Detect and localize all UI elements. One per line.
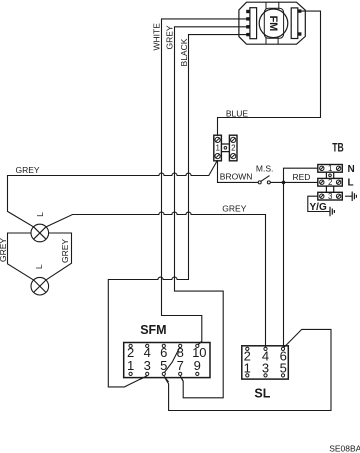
svg-text:RED: RED <box>293 172 311 182</box>
wire BLACK: FM terminal 4 to SFM pin 3 <box>108 35 246 387</box>
svg-text:1: 1 <box>127 358 134 373</box>
svg-text:Y/G: Y/G <box>310 202 327 213</box>
svg-text:BLUE: BLUE <box>226 108 249 118</box>
lamp L2 <box>31 277 49 295</box>
svg-text:GREY: GREY <box>165 25 175 49</box>
wire GREY: lamps left node to connector pin 1 bottom <box>8 161 218 227</box>
svg-text:9: 9 <box>194 358 201 373</box>
wire BLUE: FM right terminal to connector pin 1 top <box>218 11 321 135</box>
wire: lamp L1 right to lamp L2 right <box>46 233 72 280</box>
connector SFM <box>124 343 210 378</box>
ground at Y/G <box>330 207 334 217</box>
svg-text:SFM: SFM <box>140 323 166 337</box>
svg-text:3: 3 <box>144 358 151 373</box>
svg-text:5: 5 <box>160 358 167 373</box>
svg-text:1: 1 <box>244 361 251 376</box>
wire: node junction up to TB terminal 1 <box>284 168 318 182</box>
svg-text:3: 3 <box>328 192 333 201</box>
svg-text:1: 1 <box>328 164 333 173</box>
svg-text:SL: SL <box>254 386 270 400</box>
connector (2-pole, BLUE/BROWN) <box>214 135 237 161</box>
wire: earth lead at TB terminal 3 right <box>346 195 352 197</box>
wire WHITE: FM terminal 2 to SFM pin 10 <box>162 19 247 345</box>
motor FM terminal pins <box>246 9 301 36</box>
SL pin numbers <box>244 349 287 376</box>
svg-text:3: 3 <box>262 361 269 376</box>
svg-text:7: 7 <box>177 358 184 373</box>
lamp L1 <box>31 224 49 242</box>
node junction (BROWN/RED/N/SL) <box>282 181 286 185</box>
svg-text:GREY: GREY <box>0 238 8 262</box>
wire GREY: lamps right node to SL pin 4 <box>46 212 266 346</box>
wire GREY: FM terminal 3 to SFM pin 7 <box>175 27 247 398</box>
connector SL <box>242 346 288 379</box>
wire RED: switch M.S. to TB terminal 2 <box>270 181 318 183</box>
wire: lamp L1 left to lamp L2 left <box>8 233 34 280</box>
wire: SFM internal link pin 8 to pin 5 <box>164 346 180 373</box>
svg-text:M.S.: M.S. <box>256 164 273 174</box>
svg-text:BLACK: BLACK <box>179 38 189 66</box>
wire Y/G: TB terminal 3 to earth <box>308 196 330 211</box>
svg-text:L: L <box>34 264 44 269</box>
svg-text:BROWN: BROWN <box>220 172 253 182</box>
svg-text:TB: TB <box>332 141 344 155</box>
wire: node junction down to SL pin 6 <box>283 182 285 346</box>
svg-text:5: 5 <box>280 361 287 376</box>
wire: SL pin 6 to SFM pin 5 <box>164 329 331 410</box>
wire stubs at SL pins 4 and 6 <box>266 345 287 348</box>
svg-text:2: 2 <box>231 144 236 153</box>
svg-text:1: 1 <box>215 144 220 153</box>
wire BROWN: connector pin 1 bottom to switch M.S. <box>218 161 259 183</box>
svg-text:WHITE: WHITE <box>152 23 162 51</box>
svg-text:2: 2 <box>328 178 333 187</box>
wire stubs at SFM pins 10, 3, 5, 7 <box>140 341 202 382</box>
svg-text:L: L <box>35 212 45 217</box>
terminal block TB <box>318 165 343 201</box>
svg-text:FM: FM <box>267 15 279 31</box>
svg-text:SE08BA: SE08BA <box>329 443 360 453</box>
ground at TB terminal 3 <box>352 192 356 202</box>
svg-text:L: L <box>348 178 354 189</box>
motor FM <box>239 2 305 44</box>
switch M.S. <box>258 181 270 184</box>
svg-text:GREY: GREY <box>222 204 246 214</box>
svg-text:GREY: GREY <box>16 165 40 175</box>
svg-text:N: N <box>348 164 355 175</box>
svg-text:GREY: GREY <box>60 239 70 263</box>
SFM pin numbers <box>127 345 207 373</box>
